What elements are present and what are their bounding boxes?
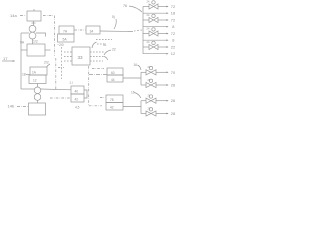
- svg-text:2): 2): [148, 78, 150, 82]
- pump P3 circle: [34, 87, 41, 94]
- svg-text:1A: 1A: [32, 71, 37, 75]
- svg-text:24: 24: [147, 13, 150, 17]
- splitter vertical C: [140, 101, 142, 114]
- dashed outputs right of 33: [90, 51, 104, 53]
- wire dash-dot label 14a to box: [20, 15, 26, 17]
- box stack 18 bottom: [29, 75, 46, 84]
- valve V1: [143, 0, 175, 9]
- wire box 18 down: [37, 84, 39, 88]
- svg-text:72: 72: [171, 4, 175, 9]
- svg-text:72: 72: [171, 31, 175, 36]
- svg-text:24: 24: [147, 0, 150, 4]
- svg-text:9A: 9A: [20, 41, 25, 45]
- ECU box 33: [72, 47, 90, 65]
- curve right of 33: [104, 57, 108, 61]
- wire tank right out: [45, 49, 51, 51]
- svg-text:8: 8: [172, 24, 174, 29]
- tick node on stem: [32, 22, 36, 24]
- svg-text:2/2: 2/2: [44, 61, 49, 65]
- svg-text:2): 2): [148, 94, 150, 98]
- svg-text:40: 40: [75, 90, 79, 94]
- svg-text:60: 60: [111, 71, 115, 75]
- wire stack B to splitter: [123, 77, 141, 79]
- svg-text:22: 22: [171, 45, 175, 50]
- wire frame to tank left: [21, 49, 27, 51]
- svg-text:42: 42: [75, 98, 79, 102]
- leader 2/2 to box: [47, 64, 51, 67]
- svg-text:28: 28: [171, 111, 175, 116]
- wire pump to tank box: [32, 39, 34, 44]
- pump P2 circle: [29, 32, 36, 39]
- arrow 17: [2, 60, 15, 62]
- curve above 33: [92, 42, 97, 48]
- tank box 12: [27, 44, 45, 56]
- leader 18 to box: [26, 74, 30, 76]
- dashed signal vertical x61.5: [61, 47, 63, 79]
- svg-text:44: 44: [111, 78, 115, 82]
- wire box 14a down to pump P1: [33, 21, 35, 25]
- dashed inputs left of 33: [64, 51, 72, 53]
- valve V8: [141, 106, 175, 116]
- box 60: [107, 68, 123, 75]
- wire dash-dot stack to box 34: [75, 29, 86, 31]
- svg-text:12: 12: [33, 79, 37, 83]
- box 40: [71, 86, 84, 94]
- svg-text:31: 31: [103, 43, 107, 47]
- wire row to 18 (N1): [143, 11, 175, 16]
- svg-text:16: 16: [134, 63, 138, 67]
- svg-text:2,): 2,): [70, 81, 74, 85]
- leader 76 to manifold: [129, 6, 142, 12]
- box 44: [107, 75, 123, 82]
- svg-text:18: 18: [22, 73, 26, 77]
- frame line left y33: [21, 32, 29, 34]
- dash-dot ECU boundary vertical x54.5 lower: [55, 58, 57, 89]
- svg-text:5A: 5A: [63, 38, 68, 42]
- dashed row y39.5: [96, 39, 112, 41]
- box 5A: [58, 34, 75, 42]
- dash-dot ECU boundary vertical x54.5 upper: [54, 16, 56, 57]
- sensor box 14a: [27, 11, 41, 21]
- svg-text:2): 2): [148, 106, 150, 110]
- svg-text:7A: 7A: [63, 30, 68, 34]
- frame vertical left x21: [20, 33, 22, 50]
- svg-text:22: 22: [112, 48, 116, 52]
- svg-text:~2/0: ~2/0: [57, 43, 64, 47]
- svg-text:70: 70: [171, 70, 176, 75]
- wire row to 12 (N4): [143, 51, 175, 56]
- svg-text:2): 2): [148, 65, 150, 69]
- box 7A: [59, 26, 74, 34]
- svg-text:18: 18: [171, 11, 175, 16]
- wire row to 8 (N2): [143, 24, 174, 29]
- box 34: [86, 26, 100, 34]
- wire long horizontal y89 left: [21, 88, 34, 90]
- dash-dot into stack 60: [89, 74, 107, 76]
- dash-dot into box 42: [50, 97, 71, 99]
- wire pump to box 14b: [37, 100, 39, 103]
- wire dash-dot from 14a right: [43, 15, 53, 17]
- box stack 18 top: [30, 67, 47, 75]
- pump P1 circle: [29, 25, 36, 32]
- svg-text:76: 76: [123, 4, 127, 8]
- splitter vertical B: [140, 72, 142, 85]
- svg-text:26: 26: [171, 98, 175, 103]
- svg-text:12: 12: [171, 51, 175, 56]
- wire long horizontal y89 right: [41, 88, 71, 91]
- svg-text:5): 5): [112, 15, 115, 19]
- svg-text:14b: 14b: [8, 104, 15, 109]
- svg-text:4,5: 4,5: [75, 106, 80, 110]
- wire y31 to manifold: [100, 30, 133, 33]
- dashed row above 33: [97, 43, 105, 45]
- wire left vertical down x21: [20, 50, 22, 89]
- svg-text:24: 24: [147, 40, 150, 44]
- wire stack C to splitter: [123, 106, 141, 108]
- bracket right of 40/42: [84, 90, 87, 98]
- wire row to 8 (N3): [143, 38, 174, 43]
- box 14b: [29, 103, 46, 115]
- svg-text:17: 17: [3, 56, 8, 61]
- svg-text:34: 34: [90, 30, 94, 34]
- box 78: [106, 95, 123, 103]
- valve V4: [143, 40, 175, 50]
- valve V5: [141, 65, 176, 75]
- svg-text:33: 33: [78, 55, 84, 60]
- svg-text:72: 72: [171, 18, 175, 23]
- wire dashes toward manifold: [134, 30, 142, 31]
- valve V3: [143, 27, 175, 37]
- dash-dot into stack 78: [100, 97, 105, 99]
- valve V6: [141, 78, 175, 88]
- valve V7: [141, 94, 175, 104]
- svg-text:8: 8: [172, 38, 174, 43]
- svg-text:78: 78: [110, 98, 114, 102]
- svg-text:24: 24: [147, 27, 150, 31]
- pump P4 circle: [34, 94, 41, 101]
- svg-text:42: 42: [110, 106, 114, 110]
- dashed row y68: [92, 68, 104, 70]
- box 42b: [106, 103, 123, 111]
- svg-text:14a: 14a: [10, 13, 17, 18]
- frame line right y33: [36, 33, 46, 37]
- svg-text:16: 16: [131, 91, 135, 95]
- valve V2: [143, 13, 175, 23]
- svg-text:26: 26: [171, 83, 175, 88]
- box 42: [71, 94, 84, 102]
- dash-dot vertical x88.7 with corner: [89, 66, 102, 106]
- svg-text:1/2: 1/2: [33, 40, 38, 44]
- wire dash 14b to box: [17, 106, 28, 108]
- manifold vertical: [142, 7, 144, 54]
- small dashes below-left of 33: [58, 67, 64, 69]
- tick above box 14a: [33, 9, 35, 11]
